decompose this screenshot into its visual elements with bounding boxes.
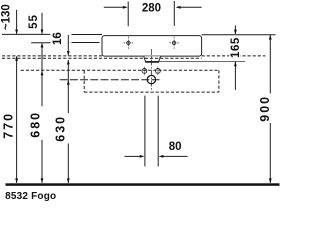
arrowhead down at wall line 165: [234, 30, 237, 35]
arrowhead down at floor 900: [269, 178, 272, 183]
dim 900 shaft lower: [269, 123, 271, 183]
arrowhead up at rim line (900): [269, 35, 272, 40]
svg-text:280: 280: [142, 2, 161, 14]
dim 80 arrow line left: [125, 155, 143, 157]
dim 280 arrow line right: [177, 6, 202, 8]
svg-text:8532 Fogo: 8532 Fogo: [5, 191, 56, 201]
floor line: [6, 183, 280, 186]
arrowhead down at board top x3: [67, 51, 70, 56]
big drain circle: [147, 75, 155, 83]
drain boss tab under basin: [144, 56, 161, 62]
svg-text:16: 16: [52, 32, 64, 45]
console board bottom dashed line: [2, 57, 202, 59]
dim 80 arrow line right: [161, 155, 188, 157]
svg-text:680: 680: [29, 111, 43, 138]
dim axis x1 lower shaft (770): [16, 56, 18, 183]
arrowhead up at line B x2 (55): [41, 43, 44, 48]
drain boss tab bottom bold edge: [145, 61, 159, 63]
wall mount line left segment: [2, 33, 50, 35]
dim 280 arrow line left: [104, 6, 125, 8]
svg-text:900: 900: [258, 95, 272, 122]
dim axis x2 upper shaft (55): [41, 13, 43, 34]
arrowhead up at tab bottom (165): [234, 61, 237, 66]
svg-text:80: 80: [169, 141, 182, 153]
rail line B right: [72, 42, 100, 44]
dim axis x2 lower shaft (680): [41, 43, 43, 106]
rail line B left: [31, 42, 50, 44]
dim 165 upper shaft: [234, 25, 236, 34]
svg-text:770: 770: [2, 112, 16, 139]
console board top dashed line right of basin: [202, 55, 266, 57]
svg-text:55: 55: [28, 14, 40, 29]
dim 165 lower extension line from drain boss: [159, 60, 245, 62]
fixing hole right circle: [156, 67, 161, 76]
dim 165 lower shaft: [234, 62, 236, 90]
svg-text:630: 630: [53, 115, 67, 142]
svg-text:165: 165: [230, 37, 242, 58]
dim axis x3 shaft (16 bottom / 630): [67, 60, 69, 113]
arrowhead up at level80 x3 (630): [67, 80, 70, 85]
dim axis x1 upper shaft (~130): [16, 10, 18, 34]
dim axis x3 shaft continued: [67, 144, 69, 183]
arrowhead up at level70 x2 (680): [41, 70, 44, 75]
arrowhead right 80 left: [140, 155, 145, 158]
washbasin outline: [102, 36, 202, 57]
dim 280 extension line right: [173, 1, 175, 26]
hidden step vertical x84: [83, 71, 85, 93]
arrowhead up at board bottom x3 (16): [67, 60, 70, 65]
dim axis x2 lower shaft continued: [41, 140, 43, 183]
arrowhead right 280 left: [123, 6, 128, 9]
arrowhead up at board top x1 (770): [15, 56, 18, 61]
console board top dashed line left of basin: [2, 55, 102, 57]
fixing hole left circle: [142, 67, 147, 76]
svg-text:~130: ~130: [1, 4, 13, 30]
wall mount line middle segment: [72, 34, 103, 36]
drain vertical centerline: [150, 49, 152, 90]
dim 280 extension line left: [127, 2, 129, 27]
drain pipe right line: [157, 96, 159, 167]
dim 900 shaft upper: [269, 35, 271, 93]
rim extension line right: [202, 34, 276, 36]
arrowhead left 80 right: [159, 155, 164, 158]
hidden level line y80 left: [60, 79, 162, 81]
drain pipe left line: [144, 96, 146, 167]
faucet hole symbol right: [169, 37, 179, 49]
arrowhead down at wall line x1: [15, 30, 18, 35]
arrowhead left 280 right: [176, 6, 181, 9]
arrowhead down at wall line x2: [41, 30, 44, 35]
faucet hole symbol left: [124, 37, 134, 49]
label 165 backing: [229, 37, 240, 58]
arrowhead down at floor x2: [41, 178, 44, 183]
arrowhead down at floor x1: [15, 178, 18, 183]
hidden bottom line y92: [84, 91, 219, 93]
hidden right vertical x219: [218, 70, 220, 92]
hidden level line y70 through drain holes: [21, 69, 219, 71]
dim axis x3 upper shaft (16 top): [67, 35, 69, 56]
arrowhead down at floor x3: [67, 178, 70, 183]
